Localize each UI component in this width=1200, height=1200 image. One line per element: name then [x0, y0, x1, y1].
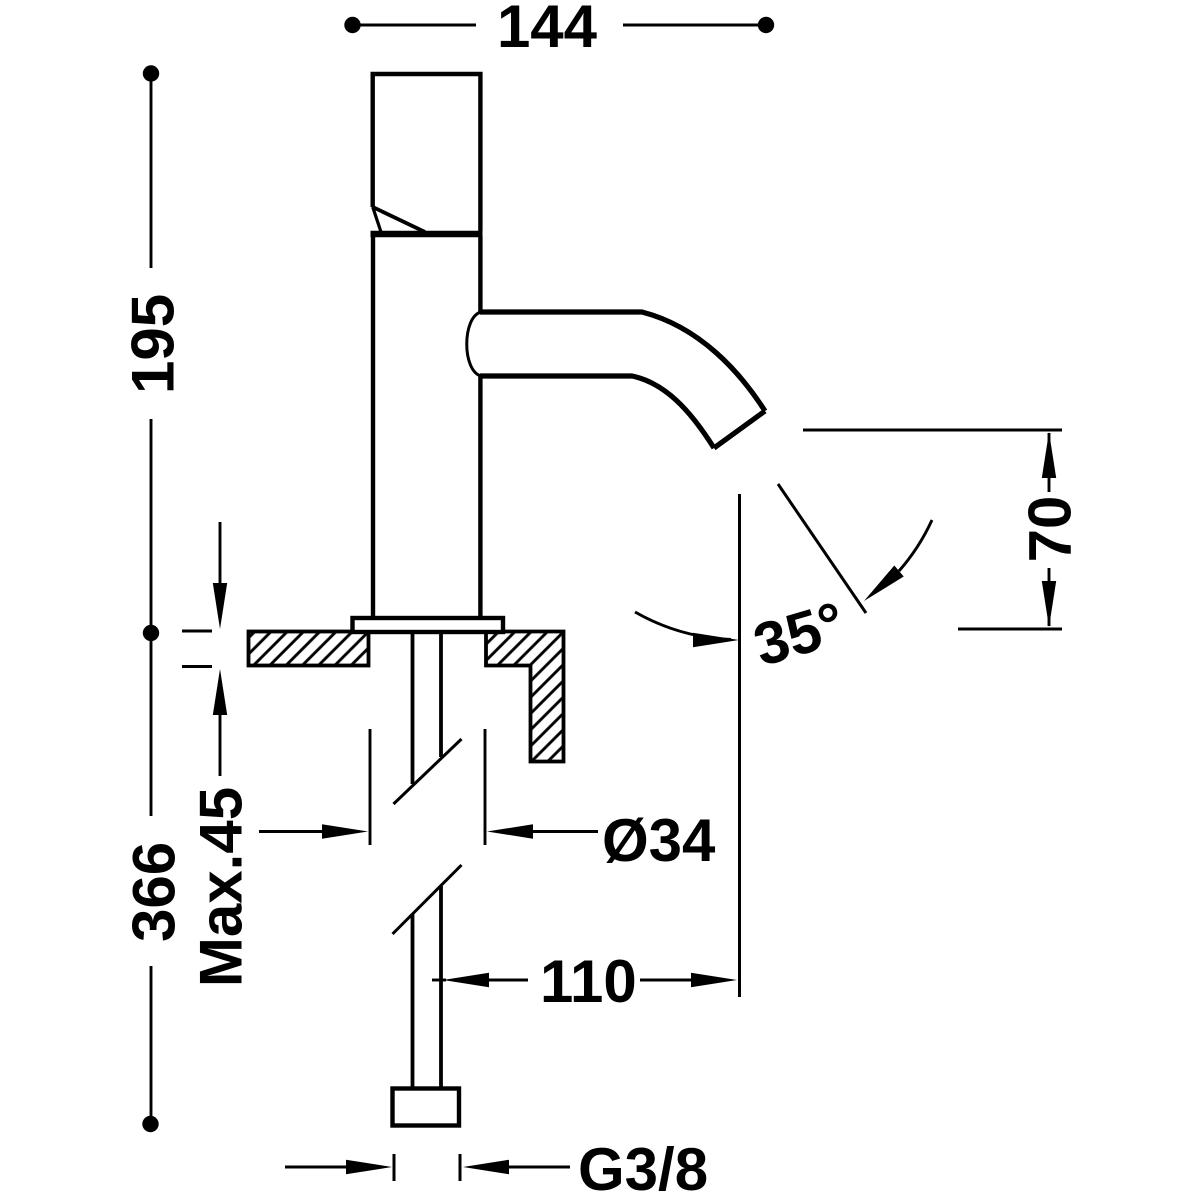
- dia34 left arrow line: [259, 830, 330, 833]
- Max.45 upper arrow line: [219, 522, 222, 588]
- threaded rod upper section: [413, 632, 442, 784]
- faucet body: [373, 236, 480, 618]
- handle notch line: [373, 207, 381, 232]
- dim 144 left end dot: [344, 17, 360, 33]
- dim 195 lower line: [150, 419, 153, 633]
- G3/8 left line: [285, 1166, 348, 1169]
- dimension 70 (outlet height): [803, 430, 1084, 629]
- dia34 left arrowhead: [322, 824, 368, 838]
- dim 144 right end dot: [758, 17, 774, 33]
- rod upper left line: [411, 632, 415, 784]
- dim 144 left line: [353, 24, 477, 27]
- svg-text:70: 70: [1017, 496, 1084, 563]
- dim 110 left arrowhead: [443, 973, 489, 987]
- G3/8 right line: [508, 1166, 570, 1169]
- Max.45 upper extension tick: [182, 630, 212, 633]
- spout top edge: [480, 312, 765, 411]
- dimension 144 (overall width): [344, 0, 774, 60]
- Max.45 lower arrow line: [219, 710, 222, 776]
- dim 110 left line: [487, 979, 528, 982]
- G3/8 left arrowhead: [346, 1160, 392, 1174]
- dim 70 upper dim line: [1048, 433, 1051, 492]
- svg-text:Max.45: Max.45: [188, 787, 255, 987]
- cartridge line (handle base): [371, 231, 483, 238]
- rod lower right line: [439, 886, 443, 1089]
- base flange: [353, 618, 504, 632]
- angle arc left segment: [635, 612, 731, 640]
- supply nut: [393, 1089, 460, 1126]
- dimension 195 (body height): [120, 65, 187, 641]
- break diagonal upper: [394, 739, 462, 804]
- dimension 366 (total depth): [121, 633, 188, 1132]
- spout bottom edge: [480, 376, 714, 448]
- break diagonal lower: [393, 865, 462, 934]
- spout: [467, 312, 765, 448]
- G3/8 right extension tick: [459, 1154, 462, 1181]
- G3/8 left extension tick: [393, 1154, 396, 1181]
- Max.45 upper arrowhead: [213, 583, 227, 629]
- Max.45 lower arrowhead: [213, 669, 227, 715]
- body left edge: [371, 236, 375, 618]
- dim 366 lower line: [150, 966, 153, 1124]
- dim 195 upper line: [150, 73, 153, 268]
- faucet handle outline: [373, 74, 481, 232]
- dimension 110 (outlet reach): [432, 948, 737, 1015]
- dia34 right arrowhead: [487, 824, 533, 838]
- dim 366 upper line: [150, 633, 153, 816]
- rod lower left line: [411, 914, 415, 1089]
- dim 70 lower dim line: [1048, 568, 1051, 626]
- threaded rod lower section: [413, 886, 442, 1089]
- svg-text:Ø34: Ø34: [602, 807, 716, 874]
- dim 110 right arrowhead: [691, 973, 737, 987]
- body right edge below spout: [478, 376, 482, 618]
- dim 144 right line: [623, 24, 766, 27]
- svg-text:144: 144: [497, 0, 598, 60]
- dia34 left extension line: [369, 729, 372, 845]
- spout outlet edge: [714, 411, 765, 448]
- counter right slab L-shape (hatched): [486, 632, 564, 762]
- body right edge above spout: [478, 236, 482, 312]
- angle arc left arrowhead: [693, 633, 739, 647]
- dim 110 right line: [640, 979, 694, 982]
- dim 195 top dot: [143, 65, 159, 81]
- svg-text:G3/8: G3/8: [578, 1136, 708, 1200]
- handle lever diagonal: [373, 207, 425, 232]
- pipe break symbol: [393, 739, 462, 934]
- counter left slab (hatched): [249, 632, 369, 666]
- dim 70 down arrowhead: [1042, 581, 1056, 627]
- spout inner end cap: [467, 312, 481, 376]
- dimension Max.45 (counter thickness): [182, 522, 255, 987]
- Max.45 lower extension tick: [182, 665, 212, 668]
- dim 70 up arrowhead: [1042, 432, 1056, 478]
- dim 70 top extension line: [803, 429, 1062, 432]
- dimension G3/8 (supply thread): [285, 1136, 708, 1200]
- svg-text:366: 366: [121, 842, 188, 942]
- vertical reference line from outlet: [738, 494, 741, 997]
- inclined reference line along spout axis: [778, 484, 866, 613]
- angle arc right segment: [899, 520, 932, 571]
- svg-text:110: 110: [540, 948, 637, 1015]
- dia34 right extension line: [484, 729, 487, 845]
- rod upper right line: [439, 632, 443, 757]
- angle dimension 35 degrees (spout angle): [635, 484, 932, 997]
- G3/8 right arrowhead: [463, 1160, 509, 1174]
- dim 70 bottom extension line: [958, 628, 1062, 631]
- dim 110 overshoot tick at rod: [432, 979, 446, 982]
- angle arc right arrowhead: [864, 566, 904, 602]
- dim 195 bottom dot: [143, 625, 159, 641]
- dia34 right arrow line: [531, 830, 598, 833]
- handle body outline: [373, 74, 481, 231]
- svg-text:195: 195: [120, 294, 187, 394]
- dim 366 bottom dot: [142, 1116, 158, 1132]
- dimension diameter 34 (base diameter): [259, 729, 716, 874]
